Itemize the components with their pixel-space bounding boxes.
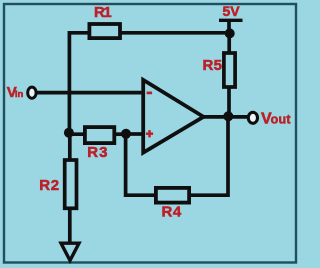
wire R4 right up to output node	[189, 118, 228, 195]
wire 5V bar to junction	[227, 20, 231, 33]
ground	[61, 243, 79, 260]
svg-text:R5: R5	[203, 57, 223, 74]
minus sign of op-amp	[147, 92, 153, 95]
wire 5V node to R1 right	[120, 31, 230, 35]
wire output node up to R5	[227, 88, 231, 117]
5V supply rail bar	[219, 19, 243, 22]
resistor R2	[65, 160, 77, 208]
op-amp U1	[143, 80, 203, 153]
svg-text:R3: R3	[87, 144, 108, 161]
resistor R1	[89, 24, 120, 38]
resistor R5	[224, 53, 235, 87]
wire divider node to R3	[69, 132, 85, 136]
wire R2 to ground	[68, 208, 72, 243]
resistor R3	[85, 127, 114, 143]
junction dot at plus input node	[121, 129, 131, 139]
plus sign of op-amp	[146, 132, 153, 135]
wire op-amp output to output node	[204, 115, 229, 119]
terminal Vout	[248, 112, 257, 123]
wire Vin to inverting input	[37, 91, 142, 95]
wire R5 top to 5V node	[227, 33, 231, 53]
svg-text:R4: R4	[162, 204, 182, 221]
terminal Vin	[28, 87, 36, 98]
svg-text:Vout: Vout	[261, 110, 291, 127]
svg-text:R1: R1	[94, 4, 111, 21]
junction dot at output node	[223, 111, 233, 121]
wire R3 to plus node	[115, 132, 127, 136]
resistor R4	[156, 188, 189, 203]
svg-text:5V: 5V	[223, 3, 241, 19]
wire output node to Vout terminal	[228, 115, 248, 119]
junction dot at 5V node	[225, 28, 235, 38]
svg-text:R2: R2	[39, 177, 59, 194]
junction dot at divider node	[64, 128, 74, 138]
wire R1 left down to divider node	[69, 33, 89, 133]
wire plus node to op-amp plus input	[126, 132, 142, 136]
wire divider node down to R2	[68, 133, 72, 160]
wire plus node down and right to R4	[126, 134, 156, 195]
